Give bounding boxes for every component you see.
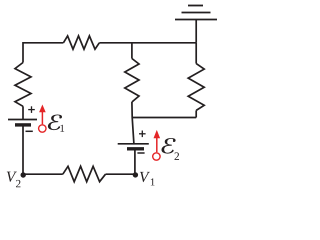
battery E2 thick plate (-) — [127, 147, 144, 150]
label V2 — [7, 172, 17, 182]
wire: connector middle-right — [132, 117, 196, 119]
emf arrow E2 (red) — [153, 130, 160, 160]
resistor R3 (middle vertical) — [125, 59, 139, 103]
battery E1 thick plate (-) — [15, 123, 31, 126]
wire: ground stem — [195, 20, 197, 43]
minus sign E1 — [26, 130, 33, 132]
battery E2 thin plate (+) — [118, 143, 149, 145]
plus sign E1 — [28, 106, 35, 113]
wire: bottom rail right segment — [106, 173, 135, 175]
wire: bottom rail left segment — [23, 127, 63, 175]
resistor R5 (bottom horizontal) — [63, 166, 106, 181]
minus sign E2 — [137, 152, 144, 154]
node V2 dot — [21, 172, 26, 177]
label V1 — [140, 172, 150, 182]
wire: right branch top — [195, 43, 197, 64]
resistor R4 (right vertical) — [188, 64, 204, 111]
resistor R1 (top horizontal) — [63, 36, 99, 49]
wire: right branch bottom — [195, 110, 197, 117]
node V1 dot — [133, 172, 138, 177]
wire: left rail to battery E1 — [22, 106, 24, 119]
emf arrow E1 (red) — [39, 105, 46, 133]
wire: middle branch top — [131, 43, 133, 59]
resistor R2 (left vertical) — [15, 63, 31, 107]
wire: battery E2 to node V1 — [134, 151, 136, 175]
ground symbol — [175, 6, 217, 20]
wire: top-left corner (left rail top + top rail left segment) — [23, 43, 63, 63]
plus sign E2 — [139, 131, 146, 138]
label emf E2 (script E) — [162, 138, 176, 154]
wire: top rail right segment — [99, 42, 196, 44]
battery E1 thin plate (+) — [8, 119, 37, 121]
label emf E1 (script E) — [48, 115, 62, 131]
wire: middle branch to battery E2 — [132, 102, 134, 144]
